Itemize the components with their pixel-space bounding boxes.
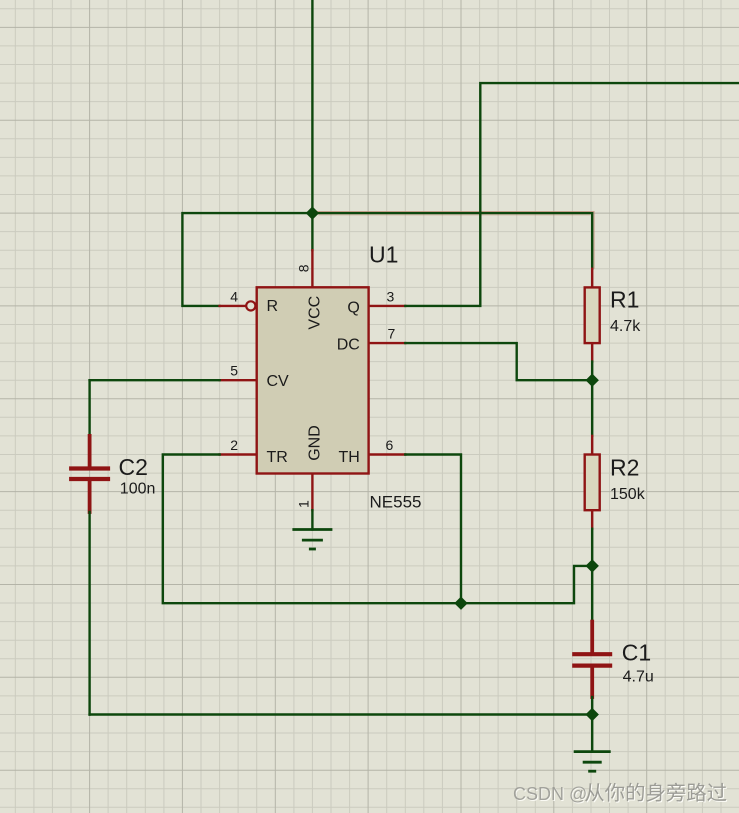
svg-text:C1: C1: [622, 640, 651, 666]
wire C1 to bottom rail: [591, 697, 593, 715]
svg-text:8: 8: [295, 264, 311, 272]
wire VCC supply vertical: [311, 0, 313, 250]
svg-text:U1: U1: [369, 242, 398, 268]
capacitor C2 plates: [69, 469, 110, 480]
svg-text:VCC: VCC: [307, 296, 324, 330]
wire node to C1: [591, 566, 593, 622]
wire CV to C2 top: [90, 379, 220, 381]
pin 5 stub: [220, 379, 257, 381]
svg-text:7: 7: [388, 326, 396, 342]
capacitor C1 plates: [572, 654, 612, 665]
svg-text:3: 3: [387, 288, 395, 304]
svg-text:R2: R2: [610, 455, 639, 481]
node R2-C1 junction: [586, 560, 598, 572]
svg-text:C2: C2: [119, 454, 148, 480]
svg-text:R1: R1: [610, 287, 639, 313]
capacitor C1 top lead: [590, 622, 594, 653]
resistor R2 body: [585, 455, 600, 511]
svg-text:100n: 100n: [120, 481, 156, 498]
svg-text:CV: CV: [267, 373, 290, 390]
svg-text:5: 5: [230, 363, 238, 379]
watermark Chinese glyphs: [586, 784, 727, 803]
svg-text:GND: GND: [307, 425, 324, 461]
pin 2 stub: [220, 453, 257, 455]
wire VCC node to pin 4: [182, 213, 312, 306]
wire VCC route underlay highlight: [312, 211, 594, 268]
wire C2 to bottom rail: [88, 512, 90, 715]
pin 1 stub: [311, 473, 313, 510]
svg-text:2: 2: [230, 437, 238, 453]
pin 3 stub: [368, 305, 405, 307]
svg-text:150k: 150k: [610, 486, 646, 503]
wire bottom rail: [90, 713, 593, 715]
resistor R1 body: [585, 287, 600, 343]
wire to ground: [591, 715, 593, 752]
wire C2 top vertical: [88, 380, 90, 436]
pin 4 bubble: [246, 301, 255, 310]
wire VCC node to R1 top: [312, 213, 592, 269]
svg-text:TH: TH: [338, 449, 359, 466]
resistor R1 bottom lead: [591, 343, 593, 362]
capacitor C1 bottom lead: [590, 668, 594, 697]
resistor R2 bottom lead: [591, 510, 593, 529]
wire R1 to R2: [591, 362, 593, 436]
pin 4 wire (red): [220, 305, 246, 307]
svg-text:NE555: NE555: [370, 493, 422, 512]
wire TH down: [405, 455, 461, 604]
wire TR rail to R2 node jog: [461, 566, 592, 603]
wire DC to R1-R2 node: [405, 343, 592, 380]
node VCC junction: [306, 207, 318, 219]
op-amp U1 NE555 timer body: [257, 287, 369, 473]
svg-text:4: 4: [230, 288, 238, 304]
svg-text:DC: DC: [337, 336, 360, 353]
svg-text:R: R: [267, 298, 279, 315]
svg-text:4.7k: 4.7k: [610, 318, 641, 335]
pin 7 stub: [368, 342, 405, 344]
svg-text:CSDN @: CSDN @: [513, 784, 587, 804]
pin 6 stub: [368, 453, 405, 455]
node R1-R2 junction: [586, 374, 598, 386]
wire TR loop: [163, 455, 461, 604]
pin 8 stub: [311, 250, 313, 287]
node C1-ground junction: [586, 709, 598, 721]
svg-text:1: 1: [295, 500, 311, 508]
capacitor C2 bottom lead: [88, 481, 92, 512]
resistor R2 top lead: [591, 436, 593, 455]
capacitor C2 top lead: [88, 436, 92, 467]
ground (below U1 pin 1): [292, 530, 332, 550]
svg-text:6: 6: [386, 437, 394, 453]
wire pin 1 to ground: [311, 510, 313, 529]
svg-text:Q: Q: [347, 299, 359, 316]
node TR-TH junction: [455, 597, 467, 609]
ground (bottom right): [574, 752, 611, 772]
svg-text:TR: TR: [267, 449, 288, 466]
watermark CSDN text: [513, 784, 588, 805]
resistor R1 top lead: [591, 269, 593, 288]
svg-text:4.7u: 4.7u: [623, 669, 654, 686]
wire R2 to node: [591, 529, 593, 566]
wire Q output to top right: [405, 83, 739, 306]
